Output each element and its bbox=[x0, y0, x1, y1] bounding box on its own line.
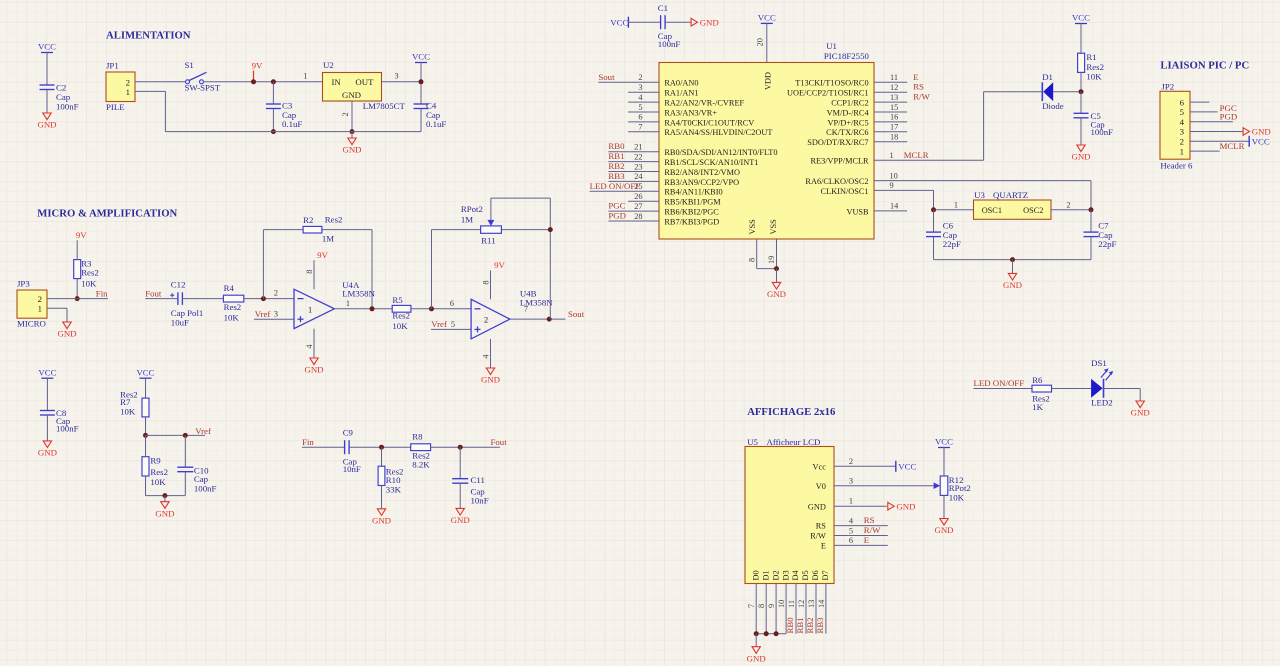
wire Fin to C9 bbox=[302, 446, 345, 448]
pin number 13 U5 bbox=[807, 600, 816, 608]
svg-text:D4: D4 bbox=[791, 570, 800, 581]
svg-text:33K: 33K bbox=[386, 485, 402, 495]
ground at U4A bbox=[304, 358, 323, 375]
svg-text:18: 18 bbox=[890, 133, 898, 142]
svg-text:RA6/CLKO/OSC2: RA6/CLKO/OSC2 bbox=[805, 177, 868, 186]
svg-text:SW-SPST: SW-SPST bbox=[185, 83, 221, 93]
wire VCC to R1 bbox=[1080, 24, 1082, 54]
wire U1 pin9 to quartz bbox=[874, 190, 934, 209]
junction feedback node U4A bbox=[261, 296, 266, 301]
wire VCC to U1 pin20 bbox=[766, 23, 768, 62]
svg-text:VCC: VCC bbox=[1072, 13, 1090, 23]
svg-text:LM7805CT: LM7805CT bbox=[363, 101, 406, 111]
svg-text:7: 7 bbox=[638, 123, 642, 132]
svg-text:19: 19 bbox=[767, 256, 776, 264]
svg-text:U2: U2 bbox=[323, 60, 334, 70]
svg-text:Cap: Cap bbox=[56, 92, 71, 102]
svg-text:RB0: RB0 bbox=[608, 141, 625, 151]
svg-text:14: 14 bbox=[890, 202, 899, 211]
pin number 12 U1 bbox=[890, 83, 898, 92]
junction ground R9 C10 bbox=[162, 493, 167, 498]
svg-text:20: 20 bbox=[756, 38, 765, 46]
ground at JP3 bbox=[57, 322, 76, 339]
wire 9V to R3 bbox=[76, 240, 78, 259]
pin number 14 U5 bbox=[817, 599, 826, 608]
svg-text:VCC: VCC bbox=[610, 17, 628, 27]
svg-text:2: 2 bbox=[126, 77, 130, 87]
svg-text:LED ON/OFF: LED ON/OFF bbox=[590, 181, 641, 191]
svg-text:GND: GND bbox=[342, 145, 361, 155]
svg-text:5: 5 bbox=[451, 320, 455, 329]
wire U1 pin 26 bbox=[628, 200, 659, 202]
svg-text:Fout: Fout bbox=[491, 437, 508, 447]
pin number 1 U4A output bbox=[346, 299, 350, 308]
wire U1 pin 25 bbox=[590, 190, 659, 192]
wire U5 data pin 7 bbox=[755, 584, 757, 634]
svg-text:0.1uF: 0.1uF bbox=[282, 119, 302, 129]
power 9V at U4A bbox=[317, 250, 328, 260]
wire C4 to ground bus bbox=[420, 109, 422, 132]
wire Fout to C12 bbox=[145, 298, 178, 300]
wire S1 to U2 pin1 bbox=[204, 81, 323, 83]
svg-text:8.2K: 8.2K bbox=[412, 460, 430, 470]
svg-text:VM/D-/RC4: VM/D-/RC4 bbox=[827, 108, 870, 117]
wire U5 pin 4 bbox=[834, 525, 888, 527]
svg-text:GND: GND bbox=[934, 525, 953, 535]
power VCC at R1 bbox=[1072, 13, 1090, 24]
svg-text:RA1/AN1: RA1/AN1 bbox=[664, 89, 698, 98]
capacitor C10 bbox=[177, 465, 216, 493]
power VCC at C2 bbox=[38, 42, 56, 53]
power VCC at R7 bbox=[136, 367, 154, 378]
net label LED ON/OFF at R6 bbox=[974, 378, 1025, 388]
ground at C1 bbox=[691, 17, 719, 27]
svg-text:E: E bbox=[913, 72, 918, 82]
wire C3 branch top bbox=[272, 82, 274, 104]
wire JP2 pin3 bbox=[1190, 131, 1243, 133]
svg-text:1M: 1M bbox=[322, 234, 334, 244]
net label Fin filter bbox=[302, 437, 314, 447]
pin number 19 U1 bbox=[767, 256, 776, 264]
ground at C11 bbox=[451, 508, 470, 525]
capacitor C1 bbox=[658, 3, 681, 49]
svg-text:R11: R11 bbox=[481, 236, 495, 246]
pin number 2 U4A bbox=[274, 288, 278, 297]
svg-text:LED2: LED2 bbox=[1091, 398, 1113, 408]
net label RB0 at U5 bbox=[785, 617, 795, 634]
svg-text:RB3: RB3 bbox=[815, 617, 825, 634]
svg-text:VCC: VCC bbox=[898, 461, 916, 471]
svg-text:E: E bbox=[864, 535, 869, 545]
wire U1 pin8 VSS bbox=[757, 239, 777, 269]
resistor R5 bbox=[392, 295, 411, 331]
net label Sout bbox=[598, 72, 615, 82]
wire U1 pin19 VSS bbox=[776, 239, 778, 269]
pin number 8 U1 bbox=[747, 258, 756, 262]
pin number 9 U1 bbox=[890, 181, 894, 190]
wire Fin stub bbox=[77, 298, 108, 300]
svg-text:26: 26 bbox=[634, 192, 642, 201]
wire Vref node bbox=[146, 434, 206, 436]
svg-text:Res2: Res2 bbox=[325, 215, 343, 225]
LED DS1 LED2 bbox=[1091, 358, 1113, 408]
resistor R4 bbox=[223, 283, 243, 322]
svg-text:D1: D1 bbox=[1042, 72, 1053, 82]
wire C5 to ground bbox=[1080, 118, 1082, 145]
svg-text:C11: C11 bbox=[471, 475, 485, 485]
pin number 5 U4B bbox=[451, 320, 455, 329]
connector JP2 Header 6 bbox=[1160, 82, 1193, 171]
ground at U5 pin1 bbox=[888, 501, 916, 511]
svg-text:Res2: Res2 bbox=[1086, 62, 1104, 72]
wire U1 pin 22 bbox=[608, 161, 659, 163]
svg-text:6: 6 bbox=[1180, 97, 1185, 107]
svg-text:15: 15 bbox=[890, 103, 898, 112]
junction R5 right bbox=[429, 306, 434, 311]
wire U2 gnd stub bbox=[351, 132, 353, 138]
svg-text:Vref: Vref bbox=[195, 426, 211, 436]
wire C6 to gnd bus bbox=[933, 237, 935, 260]
svg-text:RB0: RB0 bbox=[785, 617, 795, 634]
ground at U4B bbox=[481, 368, 500, 385]
wire diode D1 row bbox=[984, 91, 1081, 93]
net label Sout at U4B bbox=[568, 309, 585, 319]
svg-text:9V: 9V bbox=[494, 260, 505, 270]
capacitor C5 bbox=[1074, 111, 1114, 137]
net label RS bbox=[913, 82, 924, 92]
svg-text:1K: 1K bbox=[1032, 402, 1043, 412]
junction Vref C10 bbox=[183, 433, 188, 438]
wire quartz pin2 bbox=[1051, 209, 1091, 211]
svg-text:GND: GND bbox=[38, 448, 57, 458]
svg-text:2: 2 bbox=[1066, 200, 1070, 209]
crystal U3 QUARTZ bbox=[954, 190, 1071, 219]
svg-text:27: 27 bbox=[634, 202, 642, 211]
pin number 3 U5 bbox=[849, 476, 853, 485]
svg-text:10K: 10K bbox=[81, 279, 97, 289]
svg-text:GND: GND bbox=[304, 365, 323, 375]
wire R8 to Fout bbox=[431, 446, 500, 448]
svg-text:RB2: RB2 bbox=[805, 617, 815, 633]
svg-text:RA4/T0CKI/C1OUT/RCV: RA4/T0CKI/C1OUT/RCV bbox=[664, 118, 754, 127]
svg-text:VUSB: VUSB bbox=[846, 207, 869, 216]
svg-text:RA5/AN4/SS/HLVDIN/C2OUT: RA5/AN4/SS/HLVDIN/C2OUT bbox=[664, 128, 772, 137]
pin number 1 U1 bbox=[890, 151, 894, 160]
svg-text:5: 5 bbox=[849, 526, 853, 535]
wire U5 data pin 14 bbox=[825, 584, 827, 634]
svg-text:OSC2: OSC2 bbox=[1023, 206, 1043, 215]
wire LED ON/OFF to R6 bbox=[974, 388, 1033, 390]
switch S1 SW-SPST bbox=[185, 60, 221, 93]
svg-text:GND: GND bbox=[747, 653, 766, 663]
svg-text:6: 6 bbox=[638, 113, 642, 122]
svg-text:Afficheur LCD: Afficheur LCD bbox=[767, 437, 821, 447]
net label R/W at U5 bbox=[864, 525, 881, 535]
potentiometer R12 RPot2 10K bbox=[934, 475, 971, 503]
svg-text:22: 22 bbox=[634, 152, 642, 161]
svg-text:R5: R5 bbox=[392, 295, 403, 305]
wire to ground divider bbox=[164, 496, 166, 502]
net label Vref pin5 bbox=[431, 319, 447, 329]
svg-text:RB7/KBI3/PGD: RB7/KBI3/PGD bbox=[664, 217, 719, 226]
svg-text:10K: 10K bbox=[224, 312, 240, 322]
wire U5 data ground bus bbox=[756, 633, 786, 635]
junction C3 bottom bbox=[271, 129, 276, 134]
resistor R7 bbox=[120, 389, 149, 417]
display U5 Afficheur LCD bbox=[745, 437, 834, 584]
power VCC at C8 bbox=[38, 367, 56, 378]
wire C7 to gnd bus bbox=[1090, 237, 1092, 260]
svg-text:5: 5 bbox=[638, 103, 642, 112]
pin number 11 U5 bbox=[787, 600, 796, 608]
capacitor C4 bbox=[414, 101, 447, 130]
svg-text:GND: GND bbox=[37, 120, 56, 130]
wire U5 pin 5 bbox=[834, 535, 888, 537]
junction quartz ground bbox=[1010, 257, 1015, 262]
wire U1 pin 23 bbox=[608, 171, 659, 173]
wire U1 pin 7 bbox=[628, 131, 659, 133]
svg-text:12: 12 bbox=[890, 83, 898, 92]
wire U4B pin4 to ground bbox=[490, 339, 492, 368]
svg-text:C9: C9 bbox=[343, 428, 354, 438]
svg-text:8: 8 bbox=[481, 280, 490, 284]
pin number 6 U5 bbox=[849, 536, 853, 545]
pin number 4 U5 bbox=[849, 516, 854, 525]
wire U1 pin 28 bbox=[608, 220, 659, 222]
wire JP1 pin1 down to ground bus bbox=[135, 91, 165, 131]
net label Vref pin3 bbox=[255, 309, 271, 319]
wire quartz ground bus bbox=[934, 259, 1092, 261]
power VCC at C1 bbox=[610, 17, 628, 28]
svg-text:OSC1: OSC1 bbox=[982, 206, 1002, 215]
net label RB2 at U5 bbox=[805, 617, 815, 633]
wire C7 branch bbox=[1090, 210, 1092, 232]
svg-text:RPot2: RPot2 bbox=[461, 204, 483, 214]
svg-text:1: 1 bbox=[890, 151, 894, 160]
svg-text:100nF: 100nF bbox=[194, 483, 217, 493]
pin number 22 U1 bbox=[634, 152, 642, 161]
svg-text:RB5/KBI1/PGM: RB5/KBI1/PGM bbox=[664, 198, 721, 207]
pin number 10 U1 bbox=[890, 171, 898, 180]
svg-text:Res2: Res2 bbox=[81, 268, 99, 278]
wire C8 to ground bbox=[46, 415, 48, 441]
wire R7 to Vref node bbox=[145, 417, 147, 436]
wire U1 pin 16 bbox=[874, 121, 907, 123]
pin number 12 U5 bbox=[797, 600, 806, 608]
pin number 27 U1 bbox=[634, 202, 642, 211]
svg-text:R/W: R/W bbox=[864, 525, 881, 535]
svg-text:9V: 9V bbox=[252, 60, 263, 70]
wire JP2 pin6 bbox=[1190, 101, 1209, 103]
op-amp U4A LM358N bbox=[294, 280, 376, 329]
wire U4B output to Sout bbox=[510, 318, 566, 320]
svg-text:4: 4 bbox=[1180, 117, 1185, 127]
svg-text:1: 1 bbox=[954, 200, 958, 209]
svg-text:OUT: OUT bbox=[355, 77, 374, 87]
svg-text:GND: GND bbox=[372, 515, 391, 525]
svg-text:UOE/CCP2/T1OSI/RC1: UOE/CCP2/T1OSI/RC1 bbox=[787, 89, 869, 98]
pin number 1 U5 bbox=[849, 497, 853, 506]
svg-text:Sout: Sout bbox=[598, 72, 615, 82]
svg-text:23: 23 bbox=[634, 162, 642, 171]
svg-text:GND: GND bbox=[57, 329, 76, 339]
wire C11 to ground bbox=[459, 483, 461, 508]
wire U5 pin 6 bbox=[834, 544, 888, 546]
svg-text:GND: GND bbox=[1131, 408, 1150, 418]
net label RB3 at U5 bbox=[815, 617, 825, 634]
svg-text:Fout: Fout bbox=[145, 289, 162, 299]
svg-text:RB4/AN11/KBI0: RB4/AN11/KBI0 bbox=[664, 188, 722, 197]
ground at U1 bbox=[767, 282, 786, 299]
svg-text:2: 2 bbox=[341, 112, 350, 116]
pin number 21 U1 bbox=[634, 143, 642, 152]
wire R1 to MCLR node bbox=[1080, 72, 1082, 91]
net label PGD bbox=[608, 211, 626, 221]
net label RB2 bbox=[608, 161, 624, 171]
wire feedback loop U4A bbox=[263, 230, 372, 309]
svg-text:8: 8 bbox=[747, 258, 756, 262]
resistor R3 bbox=[74, 259, 99, 289]
svg-text:10K: 10K bbox=[392, 321, 408, 331]
svg-text:6: 6 bbox=[849, 536, 853, 545]
wire C6 branch bbox=[933, 210, 935, 232]
net label E at U5 bbox=[864, 535, 869, 545]
svg-text:9V: 9V bbox=[317, 250, 328, 260]
wire VCC to R7 bbox=[145, 378, 147, 398]
svg-text:D3: D3 bbox=[781, 570, 790, 580]
svg-text:8: 8 bbox=[305, 270, 314, 274]
svg-text:10: 10 bbox=[890, 171, 898, 180]
resistor R2 Res2 1M bbox=[303, 215, 342, 244]
wire U1 pin 14 bbox=[874, 210, 907, 212]
svg-text:R/W: R/W bbox=[913, 92, 930, 102]
svg-text:Vref: Vref bbox=[431, 319, 447, 329]
net label LED ON/OFF bbox=[590, 181, 641, 191]
capacitor C3 bbox=[266, 101, 302, 130]
svg-text:C6: C6 bbox=[943, 220, 954, 230]
svg-text:GND: GND bbox=[155, 508, 174, 518]
wire U1 pin 24 bbox=[608, 180, 659, 182]
svg-text:11: 11 bbox=[890, 73, 898, 82]
svg-text:VP/D+/RC5: VP/D+/RC5 bbox=[827, 118, 868, 127]
pin number 11 U1 bbox=[890, 73, 898, 82]
ground at U2 bbox=[342, 138, 361, 155]
junction R10 top bbox=[379, 445, 384, 450]
svg-text:GND: GND bbox=[451, 515, 470, 525]
svg-text:RA3/AN3/VR+: RA3/AN3/VR+ bbox=[664, 108, 717, 117]
resistor R10 bbox=[378, 466, 403, 495]
svg-text:R9: R9 bbox=[150, 456, 161, 466]
section title MICRO & AMPLIFICATION bbox=[37, 208, 177, 220]
wire U5 pin3 V0 bbox=[834, 485, 934, 487]
pin number 2 U1 bbox=[638, 73, 642, 82]
svg-text:RB3: RB3 bbox=[608, 171, 625, 181]
pin number 8 U5 bbox=[757, 604, 766, 608]
potentiometer R11 RPot2 1M bbox=[461, 204, 502, 246]
svg-text:CK/TX/RC6: CK/TX/RC6 bbox=[826, 128, 868, 137]
wire JP1 pin2 to switch S1 bbox=[135, 81, 185, 83]
svg-text:11: 11 bbox=[787, 600, 796, 608]
wire R10 branch bbox=[381, 447, 383, 466]
net label Vref bbox=[195, 426, 211, 436]
svg-text:3: 3 bbox=[1180, 127, 1185, 137]
svg-text:VCC: VCC bbox=[758, 13, 776, 23]
svg-text:D0: D0 bbox=[751, 570, 760, 580]
wire R3 to Fin node bbox=[76, 279, 78, 299]
ground at U5 data bbox=[747, 647, 766, 664]
wire C9 to R8 bbox=[349, 446, 411, 448]
junction C3 top bbox=[271, 79, 276, 84]
svg-text:1: 1 bbox=[308, 305, 312, 314]
wire U1 pin 3 bbox=[628, 91, 659, 93]
svg-text:2: 2 bbox=[274, 288, 278, 297]
svg-text:RS: RS bbox=[913, 82, 924, 92]
svg-text:100nF: 100nF bbox=[1091, 127, 1114, 137]
junction VCC C4 bbox=[419, 79, 424, 84]
svg-text:VSS: VSS bbox=[769, 219, 778, 235]
pin number 6 U1 bbox=[638, 113, 642, 122]
wire R10 to ground bbox=[381, 486, 383, 509]
svg-text:28: 28 bbox=[634, 212, 642, 221]
svg-text:VCC: VCC bbox=[412, 52, 430, 62]
wire to quartz ground bbox=[1012, 260, 1014, 274]
wire R6 to LED DS1 bbox=[1052, 388, 1092, 390]
svg-text:D7: D7 bbox=[821, 570, 830, 580]
svg-text:13: 13 bbox=[890, 93, 898, 102]
microcontroller U1 PIC18F2550 bbox=[659, 41, 874, 239]
svg-text:LED ON/OFF: LED ON/OFF bbox=[974, 378, 1025, 388]
pin number 7 U1 bbox=[638, 123, 642, 132]
svg-text:ALIMENTATION: ALIMENTATION bbox=[106, 30, 191, 42]
junction U4A output bbox=[370, 306, 375, 311]
wire R1 to C5 bbox=[1080, 92, 1082, 114]
svg-text:VCC: VCC bbox=[935, 437, 953, 447]
wire U2 pin2 to ground bus bbox=[351, 101, 353, 132]
junction MCLR R1 C5 bbox=[1079, 89, 1084, 94]
svg-text:0.1uF: 0.1uF bbox=[426, 119, 446, 129]
power VCC at C4 bbox=[412, 52, 430, 63]
svg-text:2: 2 bbox=[484, 316, 488, 325]
junction C11 top bbox=[458, 445, 463, 450]
wire U5 pin2 Vcc bbox=[834, 465, 896, 467]
wire R9 to ground bus bbox=[146, 476, 186, 496]
wire VCC to C8 bbox=[46, 378, 48, 410]
svg-text:GND: GND bbox=[700, 17, 719, 27]
junction Fin node bbox=[75, 296, 80, 301]
pin number 6 U4B bbox=[450, 299, 454, 308]
svg-text:Sout: Sout bbox=[568, 309, 585, 319]
wire VCC to C2 bbox=[46, 53, 48, 86]
net label RB0 bbox=[608, 141, 625, 151]
svg-text:E: E bbox=[821, 542, 826, 551]
wire U4B feedback loop bbox=[432, 198, 551, 319]
svg-text:R4: R4 bbox=[224, 283, 235, 293]
capacitor C12 Cap Pol1 bbox=[170, 279, 203, 327]
net label Fin bbox=[96, 289, 108, 299]
net label E bbox=[913, 72, 918, 82]
pin number 3 U4A bbox=[274, 310, 278, 319]
pin number 8 U4B bbox=[481, 280, 490, 284]
svg-text:RB3/AN9/CCP2/VPO: RB3/AN9/CCP2/VPO bbox=[664, 178, 739, 187]
pin number 5 U1 bbox=[638, 103, 642, 112]
svg-text:6: 6 bbox=[450, 299, 454, 308]
wire Vref to R9 bbox=[145, 435, 147, 456]
svg-text:IN: IN bbox=[332, 77, 342, 87]
wire JP2 pin5 bbox=[1190, 111, 1218, 113]
pin number 17 U1 bbox=[890, 123, 898, 132]
net label Fout at C12 bbox=[145, 289, 162, 299]
svg-text:100nF: 100nF bbox=[56, 102, 79, 112]
